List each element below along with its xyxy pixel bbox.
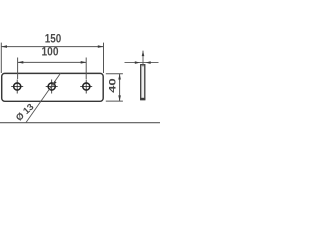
dimension 100 line with arrows bbox=[18, 61, 87, 64]
svg-text:40: 40 bbox=[108, 78, 118, 93]
dimension 150 line with arrows bbox=[1, 45, 103, 48]
dimension 40 line with arrows bbox=[118, 74, 121, 101]
dimension 40 extension lines bbox=[106, 74, 123, 101]
hole 3 bbox=[80, 80, 92, 94]
dimension 150 extension lines bbox=[1, 43, 103, 73]
leader line to hole 2 bbox=[26, 73, 61, 122]
thickness dimension line with inward arrows bbox=[125, 61, 159, 64]
svg-text:150: 150 bbox=[45, 32, 62, 46]
leader arrowhead at hole 2 bbox=[53, 81, 57, 86]
hole 1 bbox=[11, 80, 23, 94]
dimension 100 extension lines bbox=[18, 58, 87, 80]
svg-text:100: 100 bbox=[42, 45, 59, 59]
side view plate rectangle bbox=[141, 65, 145, 100]
thickness leader with up arrow bbox=[142, 51, 145, 67]
side view bottom cap bbox=[140, 98, 145, 100]
hole 2 bbox=[46, 80, 58, 94]
table frame rule line bbox=[0, 122, 160, 124]
plate front view outline bbox=[2, 73, 104, 101]
